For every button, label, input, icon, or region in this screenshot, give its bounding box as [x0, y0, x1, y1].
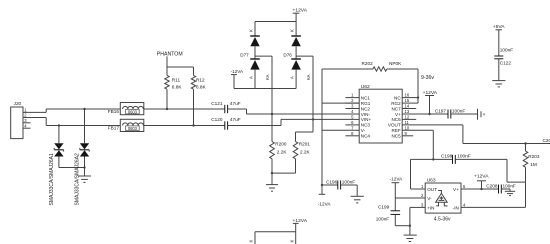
power -12VA (U63 V-) — [390, 177, 404, 198]
svg-text:47uF: 47uF — [230, 117, 241, 122]
capacitor C197 100nF — [435, 108, 478, 118]
svg-text:NC3: NC3 — [361, 123, 371, 128]
node PHANTOM — [157, 51, 183, 67]
resistor R12 6.8K — [191, 67, 206, 127]
svg-text:R11: R11 — [172, 78, 181, 83]
svg-text:NC5: NC5 — [391, 134, 401, 139]
svg-text:SMAJ33CA/SMAJ26A2: SMAJ33CA/SMAJ26A2 — [74, 153, 80, 205]
svg-text:R201: R201 — [299, 142, 311, 147]
svg-text:K: K — [249, 240, 254, 243]
wire C198 right to R203 bottom and U63 pin4 — [461, 159, 526, 207]
op-amp U63 — [425, 177, 461, 213]
svg-text:15: 15 — [405, 98, 410, 103]
capacitor C198 100nF — [411, 153, 508, 164]
svg-text:100nF: 100nF — [503, 183, 516, 188]
svg-text:RG2: RG2 — [391, 101, 401, 106]
svg-text:R12: R12 — [196, 78, 205, 83]
svg-text:KA: KA — [306, 74, 311, 80]
resistor R203 1M — [523, 144, 540, 183]
svg-text:C198: C198 — [441, 153, 453, 158]
svg-text:-12VA: -12VA — [390, 177, 404, 182]
svg-text:4.5-36v: 4.5-36v — [434, 217, 451, 223]
svg-text:C120: C120 — [211, 117, 223, 122]
wire D76 mid tap KA — [296, 56, 314, 141]
svg-text:K: K — [290, 29, 295, 32]
wire U63 pin3 +IN to ground — [410, 207, 425, 235]
ground (R200/R201) — [266, 185, 278, 192]
svg-text:A: A — [248, 76, 253, 79]
U62 left pin stubs — [345, 98, 359, 136]
svg-text:100nF: 100nF — [342, 180, 355, 185]
svg-text:12: 12 — [405, 115, 410, 120]
svg-text:SMAJ33CA/SMAJ26A1: SMAJ33CA/SMAJ26A1 — [49, 153, 55, 205]
power +12VA (U62 V+) — [423, 90, 438, 115]
svg-text:0603: 0603 — [128, 109, 138, 114]
svg-text:U63: U63 — [427, 177, 436, 183]
wire U62 pin11 VOUT to output — [402, 125, 550, 145]
svg-text:100nF: 100nF — [500, 48, 513, 53]
resistor R201 2.2K — [293, 142, 310, 174]
svg-text:1M: 1M — [530, 162, 537, 167]
svg-text:13: 13 — [405, 109, 410, 114]
svg-text:6.8K: 6.8K — [172, 84, 183, 89]
svg-text:K: K — [289, 240, 294, 243]
svg-text:V+: V+ — [453, 187, 459, 192]
resistor R202 NP0K — [322, 61, 418, 71]
wire anode rail — [234, 88, 296, 90]
wire C121 to U62 pin4 (VIN-) — [228, 109, 360, 115]
svg-text:NC4: NC4 — [361, 134, 371, 139]
svg-text:C20: C20 — [543, 138, 550, 143]
wire U63 pin2 V- — [395, 197, 425, 199]
svg-text:16: 16 — [405, 93, 410, 98]
capacitor C208 100nF — [486, 183, 516, 193]
svg-text:C199: C199 — [378, 204, 390, 209]
svg-text:+12VA: +12VA — [474, 174, 489, 180]
svg-text:V+: V+ — [395, 112, 401, 117]
svg-text:C121: C121 — [211, 101, 223, 106]
svg-text:NC1: NC1 — [361, 95, 371, 100]
svg-text:47uF: 47uF — [230, 101, 241, 106]
svg-text:-IN: -IN — [453, 205, 459, 210]
ground (TVS) — [78, 176, 91, 182]
U62 right pin numbers — [405, 93, 410, 136]
svg-text:11: 11 — [405, 120, 410, 125]
node junction lower wire to TVS1 — [58, 124, 60, 126]
op-amp U62 (instrumentation amplifier) — [359, 84, 402, 143]
svg-text:VIN+: VIN+ — [361, 117, 372, 122]
wire TVS1 bottom to TVS2 bottom — [59, 167, 85, 169]
svg-text:C208: C208 — [486, 183, 498, 188]
TVS diode SMAJ33CA/SMAJ26A2 — [74, 109, 89, 206]
power -12VA (V- rail bottom) — [318, 194, 332, 206]
svg-text:6.8K: 6.8K — [196, 84, 207, 89]
ground (C208) — [505, 189, 515, 196]
svg-text:9-36v: 9-36v — [421, 75, 434, 81]
U62 left pin names — [361, 95, 372, 138]
connector J20 — [11, 101, 31, 138]
svg-text:VOUT: VOUT — [388, 123, 401, 128]
wire R201 bottom to R200 bottom — [271, 172, 296, 174]
U63 pin numbers — [421, 184, 466, 207]
svg-text:2.2K: 2.2K — [300, 150, 311, 155]
ground (U63 +IN / C199) — [404, 235, 417, 241]
svg-text:-12VA: -12VA — [231, 69, 244, 74]
svg-text:PHANTOM: PHANTOM — [157, 51, 183, 57]
svg-text:RG1: RG1 — [361, 101, 371, 106]
U62 right pin stubs — [402, 109, 416, 136]
svg-text:100nF: 100nF — [376, 217, 389, 222]
U62 right pin names — [388, 95, 401, 138]
capacitor C122 100nF — [494, 48, 513, 81]
svg-text:+IN: +IN — [427, 205, 434, 210]
wire top rail to D77/D76 — [255, 21, 296, 23]
U63 internal op-amp symbol — [436, 191, 448, 206]
svg-text:NC6: NC6 — [391, 117, 401, 122]
svg-text:VIN-: VIN- — [361, 112, 371, 117]
svg-text:REF: REF — [392, 128, 401, 133]
power -12VA (diode anodes) — [231, 69, 244, 88]
svg-text:C197: C197 — [435, 108, 447, 113]
svg-text:FB16: FB16 — [108, 109, 120, 114]
svg-text:0603: 0603 — [128, 126, 138, 131]
svg-text:D77: D77 — [240, 52, 249, 57]
svg-text:D76: D76 — [283, 52, 292, 57]
svg-text:NP0K: NP0K — [389, 61, 402, 66]
svg-text:R202: R202 — [362, 61, 374, 66]
power +12VA top — [293, 8, 308, 22]
svg-text:2.2K: 2.2K — [277, 150, 288, 155]
svg-text:V-: V- — [361, 128, 366, 133]
ferrite bead FB17 — [108, 119, 144, 131]
svg-text:100nF: 100nF — [457, 153, 470, 158]
ground (C122) — [492, 81, 505, 87]
wire J20 pin2 to FB17 — [23, 118, 120, 126]
capacitor C121 47uF — [211, 101, 240, 113]
U63 pin names — [427, 187, 459, 210]
node junction upper wire to TVS2 — [83, 108, 85, 110]
svg-text:C196: C196 — [326, 180, 338, 185]
power +5VA — [493, 24, 505, 56]
U62 left pin numbers — [351, 93, 354, 136]
svg-text:J20: J20 — [14, 101, 22, 106]
capacitor C196 100nF — [321, 180, 357, 197]
svg-text:A: A — [290, 76, 295, 79]
svg-text:KA: KA — [265, 74, 270, 80]
wire D77 mid tap KA — [255, 56, 272, 141]
svg-text:NC2: NC2 — [361, 106, 371, 111]
wire U62 pin10 REF to buffer — [402, 130, 434, 160]
svg-text:-12VA: -12VA — [318, 201, 332, 206]
diode D76 (dual clamp, upper) — [283, 22, 301, 89]
svg-text:14: 14 — [405, 104, 410, 109]
svg-text:10: 10 — [405, 125, 410, 130]
wire R11/R12 top — [167, 66, 194, 68]
svg-text:V-: V- — [427, 196, 432, 201]
resistor R200 2.2K — [270, 142, 288, 185]
svg-text:FB17: FB17 — [108, 126, 120, 131]
power +12VA (bottom clamp) — [293, 218, 308, 232]
svg-text:R203: R203 — [528, 154, 540, 159]
diode bottom-right (clipped) — [289, 232, 295, 244]
svg-text:OUT: OUT — [427, 187, 437, 192]
wire R202 right to pins 16/15 — [402, 69, 419, 103]
wire FB17 to C120 — [144, 125, 225, 127]
ferrite bead FB16 — [108, 103, 144, 115]
ground (C197, rotated) — [478, 109, 485, 120]
power +12VA (U63 V+) — [474, 174, 489, 191]
wire FB16 to C121 — [144, 108, 225, 110]
resistor R11 6.8K — [165, 67, 183, 110]
diode bottom-left (clipped) — [249, 232, 255, 244]
svg-text:R200: R200 — [275, 142, 287, 147]
wire U63 pin5 V+ — [461, 188, 499, 190]
diode D77 (dual clamp, upper) — [240, 22, 259, 89]
svg-text:NC: NC — [394, 95, 401, 100]
svg-text:NC7: NC7 — [391, 106, 401, 111]
capacitor C120 47uF — [211, 117, 240, 130]
ground (C196) — [351, 196, 364, 203]
svg-text:100nF: 100nF — [452, 108, 465, 113]
svg-text:K: K — [249, 29, 254, 32]
TVS diode SMAJ33CA/SMAJ26A1 — [49, 126, 64, 206]
wire J20 pin1 to FB16 — [23, 109, 120, 112]
svg-text:C122: C122 — [500, 61, 512, 66]
wire C198 left to U63 pin1 — [411, 159, 426, 189]
wire U62 pin13 V+ — [402, 113, 448, 115]
capacitor C199 100nF — [376, 198, 411, 227]
wire V- rail (R202 left / RG1 / V- / C196 / -12VA) — [322, 69, 359, 194]
wire bottom clamp rail — [255, 231, 296, 233]
wire C120 to U62 pin5 (VIN+) — [228, 118, 360, 125]
svg-text:+5VA: +5VA — [493, 24, 505, 30]
